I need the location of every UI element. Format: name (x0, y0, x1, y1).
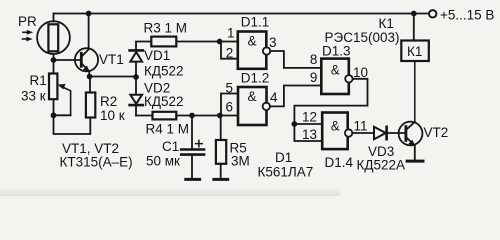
svg-text:&: & (331, 63, 340, 78)
wire bottom link R1 to R2 (54, 115, 91, 134)
wire R3 left lead to VD1 (136, 42, 151, 50)
gate D1.1 (238, 32, 270, 69)
diode VD3 (374, 127, 387, 139)
svg-text:PR: PR (18, 14, 37, 29)
label VD2 (144, 81, 170, 96)
wire D1.1 output to D1.3 pin 8 (270, 51, 321, 68)
wire wiper to R1 bottom (54, 114, 71, 116)
svg-text:D1.2: D1.2 (241, 71, 270, 86)
svg-text:6: 6 (226, 100, 234, 115)
label D1.3 function (331, 63, 340, 78)
label D1.4 (325, 155, 354, 170)
svg-text:10: 10 (353, 65, 368, 80)
svg-text:К561ЛА7: К561ЛА7 (258, 165, 314, 180)
wire R5 top lead (220, 116, 222, 141)
wire VT2 emitter lead (414, 146, 416, 160)
pin 2 (226, 46, 234, 61)
node R5 junction (217, 113, 223, 119)
wire VD3 to VT2 base (387, 132, 405, 134)
svg-text:D1: D1 (275, 150, 292, 165)
wire D1.3 output feedback to D1.4 pins 12 13 (294, 79, 367, 141)
label D1.2 (241, 71, 270, 86)
node VD1 VD2 junction (133, 74, 139, 80)
pin 13 (302, 127, 317, 142)
relay coil K1 (401, 41, 429, 62)
svg-text:&: & (331, 119, 340, 134)
label VT1 (99, 52, 124, 67)
wire K1 top lead (413, 14, 415, 41)
wire R5 bottom lead (220, 164, 222, 179)
svg-text:D1.3: D1.3 (322, 44, 351, 59)
wire PR top lead (53, 14, 55, 22)
svg-text:R4 1 М: R4 1 М (146, 122, 190, 137)
wire VD2 top lead (135, 77, 137, 94)
label relay type (325, 30, 400, 45)
transistor VT1 (75, 48, 98, 71)
wire C1 top lead (191, 116, 193, 149)
gate D1.3 (321, 59, 352, 94)
svg-text:R3 1 М: R3 1 М (144, 21, 188, 36)
label D1.3 (322, 44, 351, 59)
svg-text:R1: R1 (30, 73, 47, 88)
label R4 value (146, 122, 190, 137)
terminal +5...15 V (429, 10, 436, 17)
label D1.4 function (331, 119, 340, 134)
wire R1 top lead (53, 60, 55, 74)
pin 3 (269, 35, 277, 50)
node C1 junction (189, 113, 195, 119)
pin 8 (310, 52, 318, 67)
wire VD1 anode lead (135, 62, 137, 77)
wire R1 bottom lead (53, 99, 55, 115)
label supply voltage (440, 8, 494, 23)
wire VT2 collector to relay K1 (414, 61, 416, 122)
ground R5 (214, 178, 228, 181)
pin 6 (226, 100, 234, 115)
node collector rail junction (86, 11, 92, 17)
label VD2 type (144, 94, 184, 109)
label VT1 VT2 type (60, 141, 133, 170)
svg-text:3М: 3М (231, 154, 250, 169)
label R2 value 10k (100, 108, 125, 123)
pin 11 (354, 119, 368, 134)
svg-text:КД522А: КД522А (357, 158, 406, 173)
wire top supply rail (54, 13, 429, 15)
svg-text:2: 2 (226, 46, 234, 61)
svg-text:33 к: 33 к (21, 89, 46, 104)
svg-text:К1: К1 (407, 44, 422, 59)
svg-text:12: 12 (302, 110, 317, 125)
node supply junction (411, 11, 417, 17)
wire VT1 emitter lead (88, 71, 90, 76)
wire VT1 collector lead (88, 14, 90, 50)
svg-text:VT2: VT2 (424, 125, 449, 140)
resistor R3 (151, 37, 176, 47)
gate D1.4 (322, 113, 352, 150)
node pin1 junction (217, 39, 223, 45)
pin 5 (226, 81, 234, 96)
node pin 12 junction (292, 121, 298, 127)
svg-text:КД522: КД522 (144, 94, 184, 109)
wire VD2 to R4 (136, 115, 153, 117)
svg-text:4: 4 (270, 90, 278, 105)
svg-text:VD1: VD1 (144, 48, 170, 63)
label R5 value (231, 154, 250, 169)
transistor VT2 (399, 122, 423, 146)
photoresistor PR (23, 21, 70, 54)
svg-text:11: 11 (354, 119, 368, 134)
svg-text:&: & (248, 34, 257, 49)
wire D1.4 output to VD3 (352, 132, 374, 134)
svg-text:D1.1: D1.1 (241, 15, 270, 30)
label R1 value 33k (21, 89, 46, 104)
wire D1.2 pin 5 tie (221, 94, 238, 116)
ground VT2 emitter (407, 160, 423, 163)
wire R3 right lead to D1.1 pin 1 (176, 41, 238, 43)
resistor R4 (153, 112, 177, 120)
wire D1.4 pin 12 stub (294, 123, 322, 125)
label C1 (162, 139, 179, 154)
label R3 value (144, 21, 188, 36)
svg-text:10 к: 10 к (100, 108, 125, 123)
svg-text:5: 5 (226, 81, 234, 96)
wire R2 top lead (89, 77, 91, 93)
diode VD1 (130, 50, 143, 61)
svg-text:КД522: КД522 (144, 64, 184, 79)
ground C1 (186, 178, 200, 181)
svg-text:C1: C1 (162, 139, 179, 154)
label R1 (30, 73, 47, 88)
resistor R5 (216, 140, 226, 164)
node R1 wiper junction (51, 112, 57, 118)
svg-text:8: 8 (310, 52, 318, 67)
wire R4 to gate D1.2 pin 6 (176, 115, 238, 117)
label K1 in box (407, 44, 422, 59)
label D1.1 function (248, 34, 257, 49)
resistor R1 (variable) (49, 74, 71, 116)
label VD3 type (357, 158, 406, 173)
svg-text:1: 1 (227, 26, 235, 41)
pin 4 (270, 90, 278, 105)
wire D1.1 pin 2 tie (221, 42, 238, 59)
wire PR bottom lead (53, 54, 55, 60)
svg-text:13: 13 (302, 127, 317, 142)
node base of VT1 (51, 57, 57, 63)
pin 10 (353, 65, 368, 80)
gate D1.2 (238, 87, 270, 125)
label D1 type (258, 165, 314, 180)
svg-text:КТ315(А–Е): КТ315(А–Е) (60, 155, 133, 170)
svg-text:+5...15 В: +5...15 В (440, 8, 494, 23)
node emitter junction (87, 74, 93, 80)
label VD1 type (144, 64, 184, 79)
scan shadow bottom (0, 187, 340, 196)
label PR (18, 14, 37, 29)
label VT2 (424, 125, 449, 140)
svg-text:9: 9 (310, 70, 318, 85)
svg-text:50 мк: 50 мк (146, 154, 180, 169)
pin 12 (302, 110, 317, 125)
wire VD2 cathode lead (135, 105, 137, 115)
label D1.2 function (248, 89, 257, 104)
label R5 (230, 141, 247, 156)
capacitor C1 (181, 140, 204, 154)
label VD3 (368, 144, 394, 159)
label C1 value (146, 154, 180, 169)
pin 1 (227, 26, 235, 41)
wire D1.2 output to D1.3 pin 9 (270, 86, 321, 107)
svg-text:D1.4: D1.4 (325, 155, 354, 170)
svg-text:3: 3 (269, 35, 277, 50)
wire base wire to VT1 (54, 59, 81, 61)
wire C1 bottom lead (191, 156, 193, 179)
pin 9 (310, 70, 318, 85)
label VD1 (144, 48, 170, 63)
wire emitter to diode junction (90, 76, 136, 78)
label D1 (275, 150, 292, 165)
resistor R2 (86, 93, 95, 118)
svg-text:VT1: VT1 (99, 52, 124, 67)
label R2 (100, 94, 117, 109)
diode VD2 (130, 95, 143, 105)
svg-text:К1: К1 (379, 16, 394, 31)
label D1.1 (241, 15, 270, 30)
svg-text:&: & (248, 89, 257, 104)
label relay K1 (379, 16, 394, 31)
svg-text:R2: R2 (100, 94, 117, 109)
